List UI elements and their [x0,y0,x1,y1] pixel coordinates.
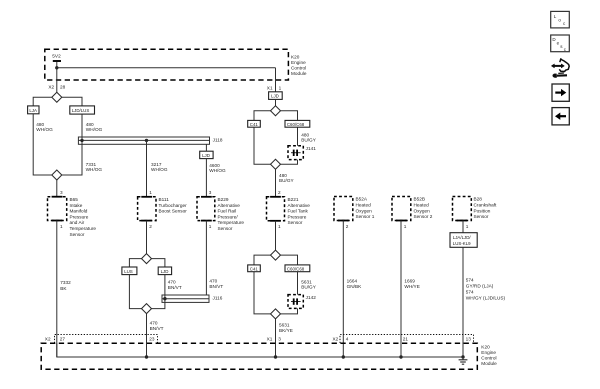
svg-text:Module: Module [291,71,307,76]
sensor B28 Crankshaft Position Sensor [453,197,498,221]
ground symbol inside ECM [459,357,468,364]
svg-text:574: 574 [466,277,474,282]
label 1669 WH/YE [404,278,419,289]
sensor B111 Turbocharger Boost Sensor [138,197,188,221]
junction dot pin 23 bus [145,355,148,358]
in-line connector J141 [288,146,316,160]
splice diamond S5 [271,106,281,116]
wire 5631 BK/YE from S8 to ECM pin X1-3 [275,319,277,357]
wire B221 pin 1 to splice S7 [275,221,277,250]
svg-text:470: 470 [150,320,158,325]
label 470 BN/VT (to pin 23) [150,320,164,331]
svg-text:LJA: LJA [29,108,37,113]
toolbar button next (right arrow) [552,84,569,101]
svg-text:Control: Control [481,355,496,360]
wire C41 lower down to splice S8 [254,272,271,314]
svg-text:BK: BK [60,286,67,291]
splice diamond S4 [142,304,152,314]
connector LJD/LUS [70,106,95,114]
svg-text:BN/VT: BN/VT [150,326,164,331]
svg-text:X2: X2 [333,336,339,341]
svg-text:1669: 1669 [404,278,415,283]
junction dot pin 21 bus [399,355,402,358]
svg-text:B111: B111 [159,197,170,202]
svg-text:WH/GY (LJD/LUS): WH/GY (LJD/LUS) [466,295,506,300]
svg-text:Oxygen: Oxygen [414,208,431,213]
connector C60/C68 upper [285,120,310,127]
connector LJD (X1 branch) [269,92,283,100]
svg-text:Engine: Engine [481,350,496,355]
junction dot at 5V2 node [55,66,58,69]
label 480 BU/GY (C60/C68 branch) [301,133,317,143]
option box LJA/LJD/LUS-KL9 [450,233,477,248]
svg-text:WH/OG: WH/OG [209,168,226,173]
node X1 pin 3 [267,336,282,341]
svg-text:3: 3 [60,190,63,195]
wire LJA down to splice S2 [33,114,52,175]
svg-text:Oxygen: Oxygen [356,208,373,213]
wire to C60/C68 lower [281,255,298,265]
wire to LJD branch [152,259,165,267]
svg-text:Crankshaft: Crankshaft [474,203,498,208]
connector strip X2 (pins 4, 21, 13) [333,335,474,344]
wire LJD/LUS down through splice pack J118 to splice S2 [62,114,82,175]
label 3217 WH/OG [151,162,168,172]
svg-text:Intake: Intake [70,203,83,208]
svg-text:LUS-KL9: LUS-KL9 [453,241,471,246]
5V2 voltage reference [52,54,61,61]
svg-text:LJD: LJD [271,94,279,99]
toolbar button back (left arrow) [552,108,569,125]
svg-text:5V2: 5V2 [52,54,61,59]
wire to LUS branch [129,259,141,267]
connector LJD (S3 branch) [158,267,171,275]
svg-text:and Air: and Air [70,220,85,225]
junction dot pin 4 bus [342,355,345,358]
svg-text:Heated: Heated [414,203,430,208]
label 480 BU/GY (to B221) [279,173,295,183]
junction dot J118 middle [145,139,148,142]
node X2 pin 28 [48,85,65,90]
junction dot pin X1-3 bus [274,355,277,358]
wire S6 to B221 pin 2 [275,169,277,197]
wire 7332 BK from B65 to ECM pin 27 [56,221,58,358]
wire splice S2 to B65 pin 3 [56,180,58,197]
wire X1 pin 1 to connector LJD [275,80,277,92]
svg-text:BU/GY: BU/GY [301,284,317,289]
splice diamond S7 [271,250,281,260]
connector C41 upper [248,120,261,127]
svg-text:GN/BK: GN/BK [347,284,363,289]
svg-text:B52B: B52B [414,197,426,202]
splice diamond S2 [52,170,62,180]
toolbar button Desc [551,35,570,52]
ECM K20 top module box [45,49,307,80]
svg-text:BK/YE: BK/YE [279,328,293,333]
svg-text:Alternative: Alternative [288,203,311,208]
wire to C60/C68 upper [281,111,298,121]
svg-text:GY/RD (LJA): GY/RD (LJA) [466,283,494,288]
svg-text:Boost Sensor: Boost Sensor [159,209,188,214]
svg-text:4: 4 [346,336,349,341]
svg-text:Manifold: Manifold [70,209,88,214]
svg-text:23: 23 [149,336,155,341]
wire 470 BN/VT from B229 pin 1 to J116 [205,221,207,295]
svg-text:WH/OG: WH/OG [36,127,53,132]
svg-text:B229: B229 [218,197,229,202]
svg-text:X1: X1 [267,336,273,341]
sensor B52B Heated Oxygen Sensor 2 [392,197,433,221]
label 470 BN/VT (LJD branch) [168,279,182,290]
svg-text:Sensor 1: Sensor 1 [356,214,375,219]
svg-text:C60/C68: C60/C68 [287,266,305,271]
svg-text:BU/GY: BU/GY [301,137,317,142]
wire C60/C68 upper down through J141 to splice S6 [281,127,298,164]
svg-text:1: 1 [466,224,469,229]
wire 5V2 feed inside ECM [57,62,276,92]
connector LJA [28,106,39,114]
splice pack J118 [78,137,222,144]
label 7331 WH/OG [86,162,103,172]
label 470 BN/VT (B229 branch) [209,279,223,290]
svg-text:K20: K20 [291,54,300,59]
splice diamond S8 [271,309,281,319]
svg-text:B28: B28 [474,197,483,202]
connector LJD (B229 branch) [200,151,213,158]
junction dot J118 left [80,139,83,142]
svg-text:BN/VT: BN/VT [168,285,182,290]
svg-text:3: 3 [278,336,281,341]
wire to LJA branch [33,97,52,106]
svg-text:1: 1 [278,224,281,229]
connector strip X2 (pins 27, 23) [45,335,158,344]
wire LUS down to splice S4 [129,275,141,309]
svg-text:WH/YE: WH/YE [404,284,419,289]
svg-text:Temperature: Temperature [218,220,245,225]
svg-text:B52A: B52A [356,197,368,202]
svg-text:Fuel Rail: Fuel Rail [218,209,237,214]
label 4600 WH/OG [209,163,226,173]
svg-text:21: 21 [403,336,409,341]
svg-text:1: 1 [209,224,212,229]
svg-text:WH/OG: WH/OG [86,167,103,172]
junction dot pin 13 bus [461,355,464,358]
svg-text:Sensor: Sensor [70,232,85,237]
label 480 WH/OG (LJA branch) [36,122,53,132]
node X1 pin 1 [267,85,282,90]
splice diamond S1 [52,92,62,102]
sensor B65 Intake Manifold Pressure and Air Temperature Sensor [48,197,97,237]
svg-text:LJD: LJD [202,153,210,158]
svg-text:Alternative: Alternative [218,203,241,208]
sensor B229 Alternative Fuel Rail Pressure/Temperature Sensor [197,197,244,231]
svg-text:X2: X2 [45,336,51,341]
svg-text:LJD/LUS: LJD/LUS [72,108,90,113]
svg-text:B65: B65 [70,197,79,202]
svg-text:7332: 7332 [60,280,71,285]
wire 1669 WH/YE from B52B to ECM pin 21 [400,221,402,358]
svg-text:X2: X2 [48,85,54,90]
svg-text:Pressure: Pressure [70,214,89,219]
svg-text:Pressure: Pressure [288,214,307,219]
svg-text:J116: J116 [213,296,223,301]
svg-text:Sensor: Sensor [474,214,489,219]
svg-text:2: 2 [278,190,281,195]
svg-text:5631: 5631 [279,323,290,328]
svg-text:1: 1 [149,190,152,195]
in-line connector J142 [288,295,316,309]
svg-text:Pressure/: Pressure/ [218,214,239,219]
connector C60/C68 lower [285,265,310,272]
wire 4600 WH/OG from J118 right end down [205,144,207,151]
svg-text:WH/OG: WH/OG [151,167,168,172]
splice diamond S3 [142,254,152,264]
svg-text:B221: B221 [288,197,299,202]
sensor B221 Alternative Fuel Tank Pressure Sensor [267,197,311,225]
wire B28 pin 1 to LJA/LJD/LUS-KL9 box [462,221,464,233]
svg-text:Fuel Tank: Fuel Tank [288,209,309,214]
wire B111 pin 2 to splice S3 [146,221,148,254]
svg-text:Control: Control [291,65,306,70]
svg-text:C41: C41 [250,266,259,271]
svg-text:470: 470 [209,279,217,284]
svg-text:K20: K20 [481,344,490,349]
svg-text:C60/C68: C60/C68 [287,122,305,127]
svg-text:LUS: LUS [124,269,133,274]
svg-text:1: 1 [279,85,282,90]
svg-text:28: 28 [60,85,66,90]
wire C41 upper down to splice S6 [254,127,271,164]
svg-text:470: 470 [168,279,176,284]
junction dot J116 [163,297,166,300]
label 5631 BU/GY [301,280,317,290]
label 574 GY/RD (LJA) / 574 WH/GY (LJD/LUS) [466,277,506,300]
svg-text:Sensor 2: Sensor 2 [414,214,433,219]
svg-text:Position: Position [474,208,491,213]
svg-text:2: 2 [149,224,152,229]
splice diamond S6 [271,159,281,169]
wire to C41 lower [254,255,271,265]
wire LJD down through splice pack J116 to splice S4 [152,275,165,309]
label 480 WH/OG (LJD/LUS branch) [86,122,103,132]
svg-text:1: 1 [404,224,407,229]
svg-text:3: 3 [209,190,212,195]
label 1664 GN/BK [347,278,363,289]
svg-text:J118: J118 [213,138,223,143]
svg-text:C41: C41 [250,122,259,127]
wire LJD to B229 pin 3 [205,159,207,197]
label 7332 BK [60,280,71,291]
toolbar icon related repairs (arrows and wrench) [551,59,569,78]
wire to LJD/LUS branch [62,97,82,106]
sensor B52A Heated Oxygen Sensor 1 [334,197,375,221]
svg-text:J141: J141 [306,146,317,151]
svg-text:Sensor: Sensor [218,226,233,231]
connector C41 lower [248,265,261,272]
wire LJD to splice S5 [275,99,277,105]
svg-text:BN/VT: BN/VT [209,284,223,289]
label 5631 BK/YE [279,323,293,334]
svg-text:13: 13 [466,336,472,341]
connector LUS [122,267,137,275]
svg-text:J142: J142 [306,295,317,300]
wire internal ground bus in ECM [57,343,463,357]
svg-text:1664: 1664 [347,278,358,283]
toolbar button Loc [551,11,570,28]
svg-text:Turbocharger: Turbocharger [159,203,188,208]
svg-text:Temperature: Temperature [70,226,97,231]
svg-text:574: 574 [466,289,474,294]
svg-text:Sensor: Sensor [288,220,303,225]
wire 470 BN/VT from S4 to ECM pin 23 [146,314,148,357]
svg-text:2: 2 [346,224,349,229]
svg-text:BU/GY: BU/GY [279,178,295,183]
splice pack J116 [162,295,223,302]
ECM K20 bottom module box [41,343,497,369]
svg-text:27: 27 [60,336,66,341]
svg-text:LJD: LJD [161,269,169,274]
wire 574 from option box to ECM pin 13 [462,247,464,357]
svg-text:Engine: Engine [291,60,306,65]
wire 3217 WH/OG from J118 to B111 [146,140,148,196]
wire C60/C68 lower down through J142 to splice S8 [281,272,298,314]
svg-text:X1: X1 [267,85,273,90]
svg-text:Module: Module [481,361,497,366]
svg-text:WH/OG: WH/OG [86,127,103,132]
wire 1664 GN/BK from B52A to ECM pin X2-4 [342,221,344,358]
svg-text:Heated: Heated [356,203,372,208]
wire to C41 upper [254,111,271,121]
svg-text:LJA/LJD/: LJA/LJD/ [453,235,472,240]
svg-text:1: 1 [60,224,63,229]
